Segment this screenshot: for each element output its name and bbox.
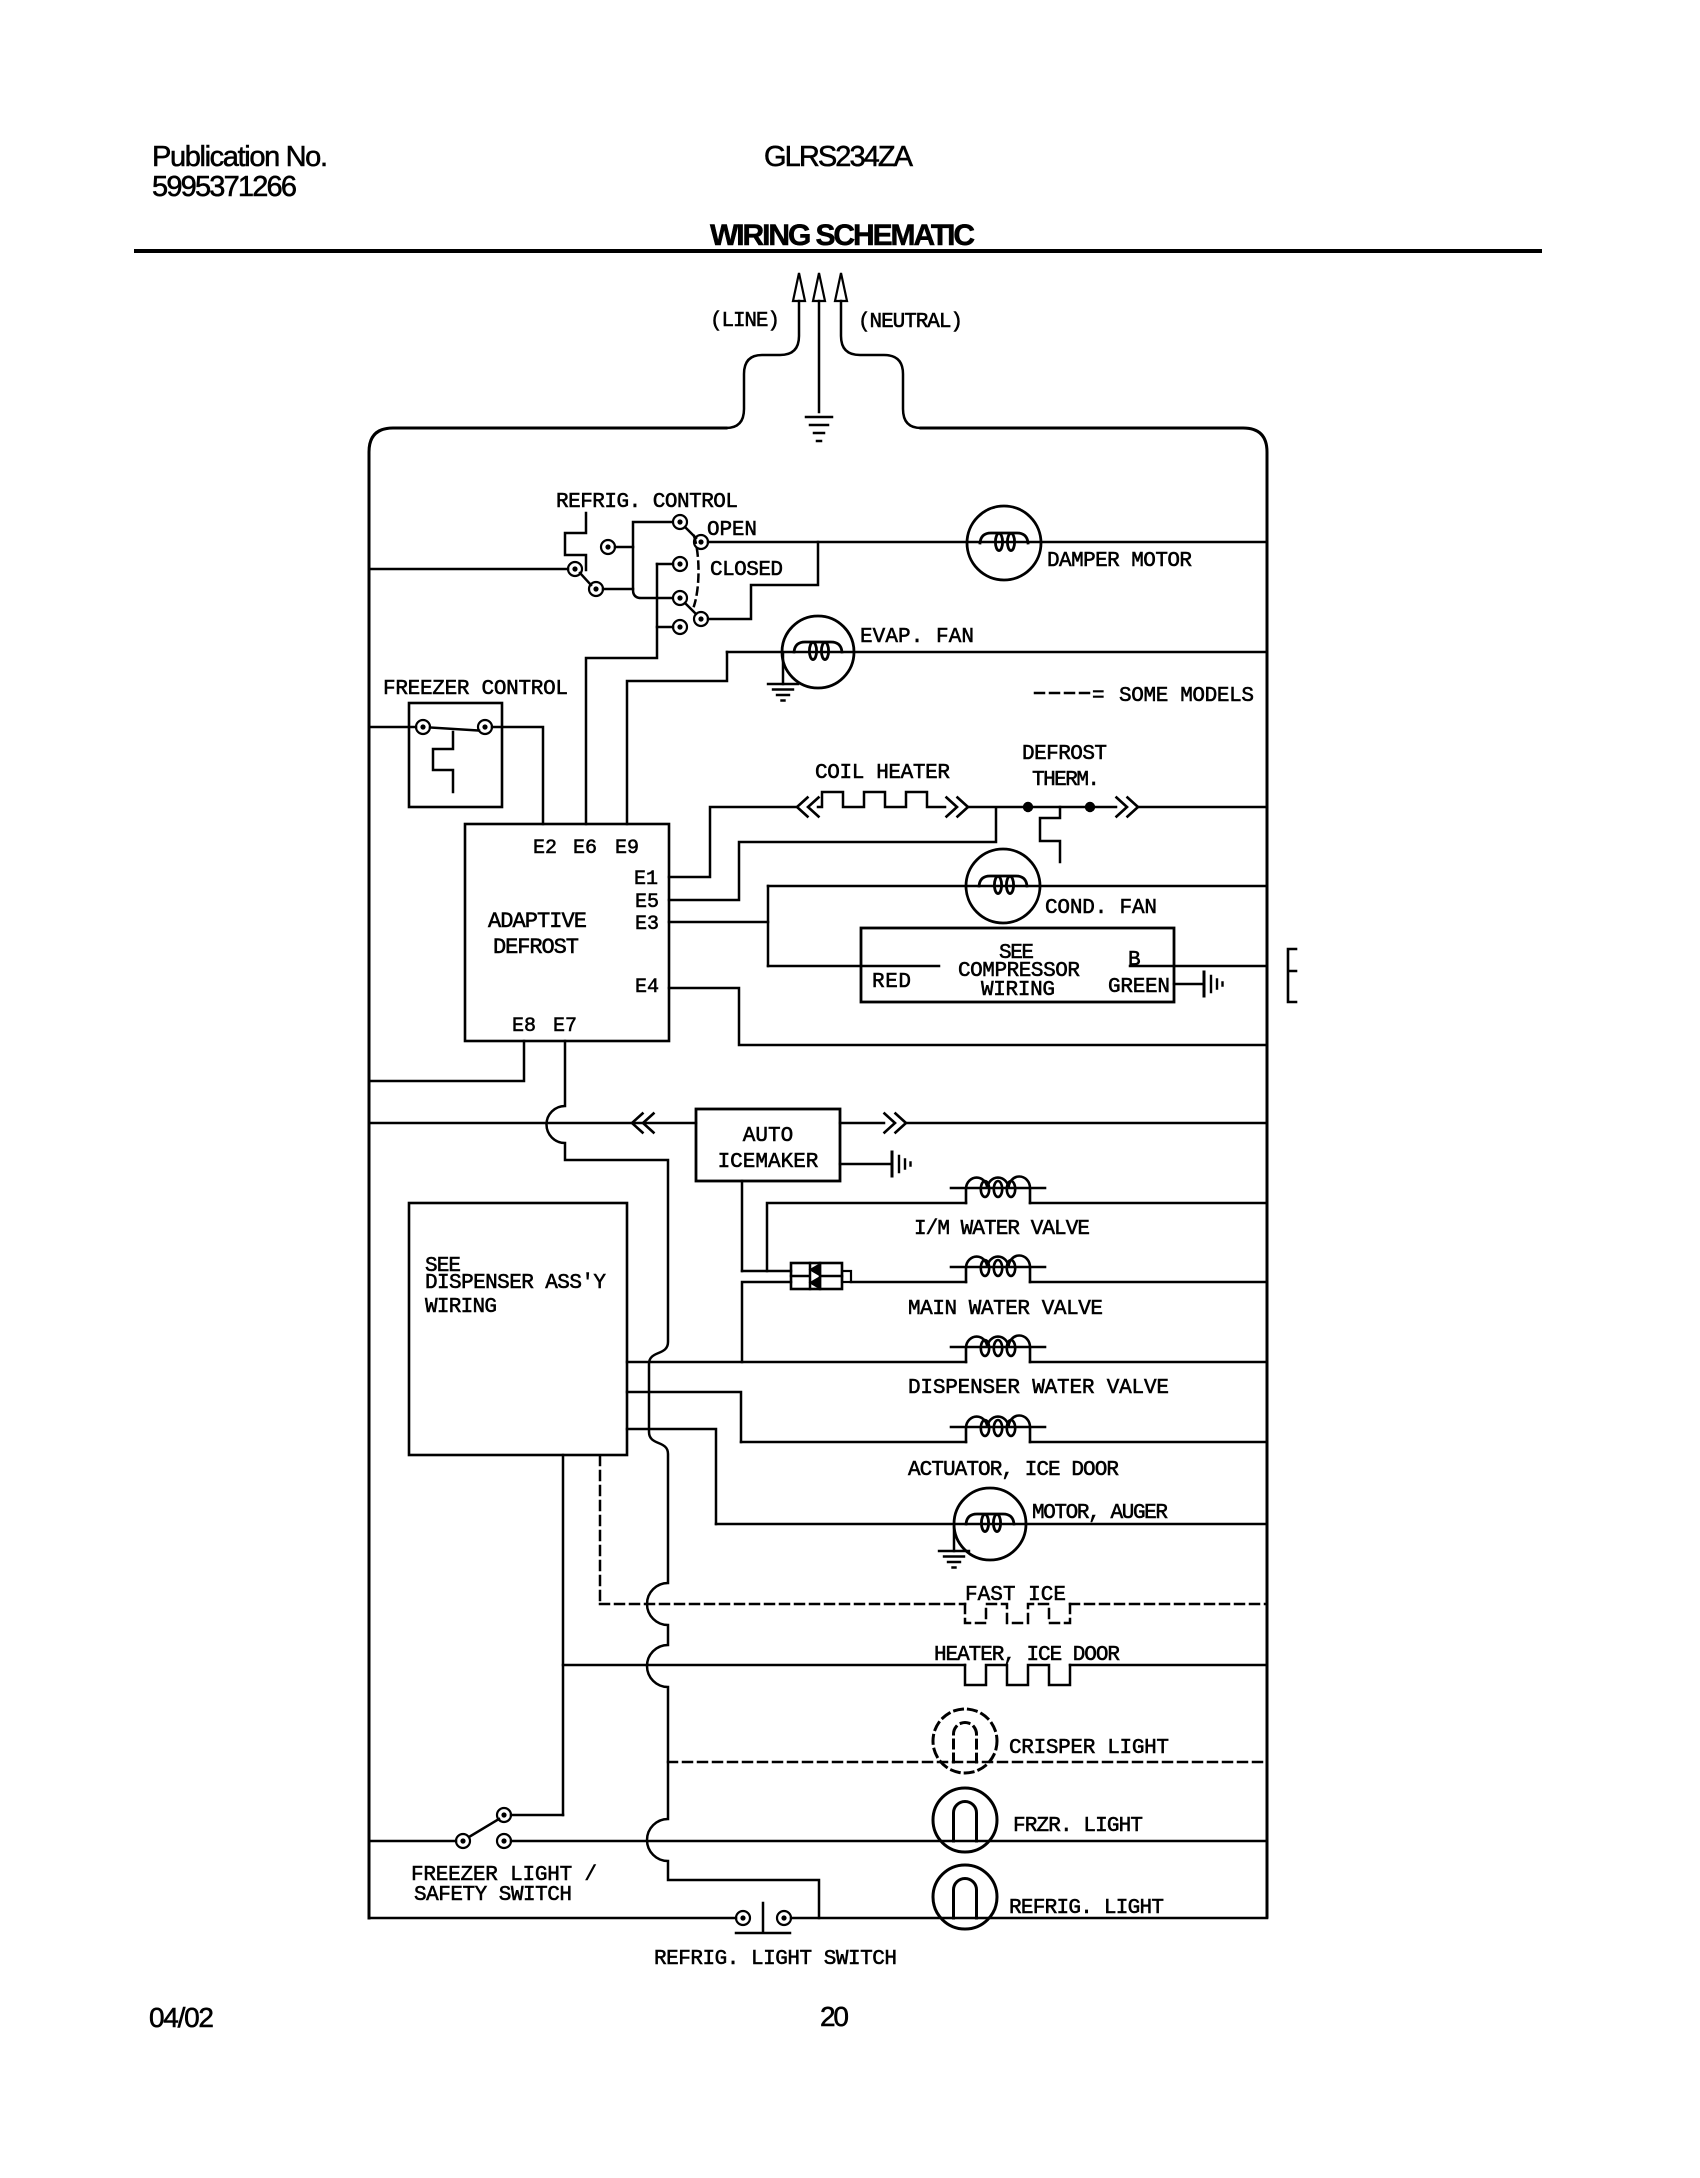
svg-text:I/M WATER VALVE: I/M WATER VALVE (914, 1218, 1090, 1241)
dashed selector arc (694, 536, 699, 606)
wire: fast ice dashed feed (599, 1456, 602, 1604)
wire: coil heater to defrost therm (968, 806, 1267, 809)
svg-text:SOME MODELS: SOME MODELS (1119, 685, 1254, 708)
wire: actuator feed (627, 1392, 741, 1442)
svg-text:=: = (1092, 685, 1105, 708)
svg-text:E1: E1 (634, 868, 658, 891)
wire: RED lead (768, 965, 939, 968)
wire: T9 stub (657, 626, 673, 629)
wire: E1 to coil heater line (669, 807, 796, 877)
wire: T1 branch down to T7 (633, 522, 672, 598)
svg-text:HEATER, ICE DOOR: HEATER, ICE DOOR (934, 1644, 1120, 1667)
compressor wiring box (861, 928, 1174, 1002)
svg-text:GLRS234ZA: GLRS234ZA (764, 141, 914, 173)
svg-text:DISPENSER WATER VALVE: DISPENSER WATER VALVE (908, 1377, 1169, 1400)
wire: heater column (562, 1455, 565, 1815)
svg-text:20: 20 (820, 2001, 849, 2032)
connector bracket (compressor plug) (1288, 949, 1296, 1002)
svg-text:E5: E5 (635, 891, 659, 914)
defrost therm contact dot B (1085, 802, 1095, 812)
refrig light (933, 1865, 997, 1929)
wire: I/M valve line (767, 1203, 1267, 1271)
svg-text:FAST ICE: FAST ICE (965, 1584, 1066, 1607)
freezer safety switch terminal UP (497, 1808, 511, 1822)
svg-text:DEFROST: DEFROST (1022, 743, 1107, 766)
header rule (136, 249, 1540, 253)
svg-text:ICEMAKER: ICEMAKER (718, 1151, 819, 1174)
refrig control terminal T1 (673, 515, 687, 529)
auto icemaker box (696, 1109, 840, 1181)
svg-text:FRZR. LIGHT: FRZR. LIGHT (1013, 1815, 1143, 1838)
svg-text:04/02: 04/02 (149, 2002, 214, 2033)
svg-text:FREEZER CONTROL: FREEZER CONTROL (383, 678, 568, 701)
svg-text:DEFROST: DEFROST (493, 935, 579, 960)
svg-text:RED: RED (872, 971, 911, 994)
svg-text:Publication No.: Publication No. (152, 141, 328, 173)
wire: E5 to defrost line (669, 808, 996, 900)
svg-text:(NEUTRAL): (NEUTRAL) (858, 311, 963, 334)
svg-text:EVAP. FAN: EVAP. FAN (860, 626, 974, 649)
svg-text:E4: E4 (635, 976, 659, 999)
svg-text:WIRING SCHEMATIC: WIRING SCHEMATIC (710, 219, 975, 252)
defrost therm contact dot A (1023, 802, 1033, 812)
wire: bottom rail / refrig light line (369, 1917, 1267, 1920)
wire: E4 line (669, 988, 1267, 1045)
freezer control terminal B (478, 720, 492, 734)
wire: upper feed into valve block (742, 1270, 791, 1273)
dispenser assembly box (409, 1203, 627, 1455)
legend: dashed means SOME MODELS (1035, 685, 1254, 708)
refrig control blade T1-T2 (685, 527, 696, 538)
svg-text:WIRING: WIRING (981, 979, 1055, 1002)
wire: cond fan line (768, 885, 1267, 888)
wire: safety switch to heater column (511, 1814, 563, 1817)
fast ice element (dashed) (965, 1604, 1070, 1623)
refrig control terminal T2 (694, 535, 708, 549)
svg-text:COIL HEATER: COIL HEATER (815, 762, 950, 785)
earth ground (supply) (806, 417, 832, 441)
actuator ice door coil (951, 1416, 1045, 1443)
refrig control terminal T9 (673, 620, 687, 634)
wire: icemaker ground lead (840, 1163, 891, 1166)
wire: auger feed (627, 1429, 716, 1524)
svg-text:SAFETY SWITCH: SAFETY SWITCH (414, 1884, 572, 1907)
water valve solenoid block (791, 1263, 851, 1289)
auger motor (954, 1488, 1026, 1560)
freezer control terminal A (416, 720, 430, 734)
wire: E7 long run to lamp bus (547, 1041, 820, 1918)
svg-text:MOTOR, AUGER: MOTOR, AUGER (1032, 1502, 1168, 1525)
frzr light (933, 1788, 997, 1852)
wire: interconnect bus (369, 1122, 696, 1125)
chassis ground (icemaker) (892, 1152, 911, 1176)
svg-text:GREEN: GREEN (1108, 976, 1170, 999)
svg-text:CLOSED: CLOSED (710, 559, 783, 582)
cond fan motor (966, 849, 1040, 923)
freezer safety switch terminal L (456, 1834, 470, 1848)
evap fan motor (782, 616, 854, 688)
svg-text:REFRIG. LIGHT SWITCH: REFRIG. LIGHT SWITCH (654, 1948, 897, 1971)
connector chevrons (icemaker output) (885, 1114, 907, 1133)
refrig control terminal T7 (673, 591, 687, 605)
wire: T5 stub (657, 563, 673, 566)
wire: damper feed from T2 (708, 541, 1267, 544)
coil heater element (818, 792, 945, 807)
refrig light switch terminal L (736, 1911, 750, 1925)
svg-text:(LINE): (LINE) (710, 310, 780, 333)
damper motor (967, 506, 1041, 580)
svg-text:5995371266: 5995371266 (152, 171, 297, 203)
freezer control thermostat zigzag (433, 732, 453, 792)
main water valve coil (951, 1256, 1045, 1283)
refrig light switch terminal R (777, 1911, 791, 1925)
svg-text:E3: E3 (635, 913, 659, 936)
freezer control blade (430, 728, 479, 731)
refrig control sensor step wire (565, 513, 586, 570)
svg-text:THERM.: THERM. (1032, 769, 1100, 792)
wire: left rail to freezer control (369, 726, 416, 729)
connector chevrons (defrost right) (1117, 798, 1139, 817)
supply arrow EARTH (813, 273, 825, 412)
wire: T8 branch to damper feed (708, 542, 818, 619)
wire: main valve feed riser (742, 1282, 791, 1362)
connector chevrons (coil heater right) (947, 798, 969, 817)
supply arrow LINE (726, 273, 805, 428)
freezer safety switch terminal M (497, 1834, 511, 1848)
refrig control terminal T6 (589, 582, 603, 596)
defrost thermostat body (1040, 807, 1060, 862)
refrig control blade T4-T6 (580, 573, 591, 585)
svg-text:E6: E6 (573, 837, 597, 860)
enclosure border (369, 428, 1267, 1918)
connector chevrons (bus left) (632, 1114, 654, 1133)
wire: B lead (1130, 965, 1267, 968)
wire: E8 to left rail (369, 1041, 524, 1081)
connector chevrons (coil heater left) (797, 798, 819, 817)
I/M water valve coil (951, 1177, 1045, 1204)
wire: T5/T9 riser to E6 column (586, 564, 657, 824)
adaptive defrost control box (465, 824, 669, 1041)
wire: icemaker output (840, 1122, 1267, 1125)
freezer safety switch blade (469, 1819, 499, 1837)
wire: auger line (716, 1523, 1267, 1526)
refrig control terminal T3 (601, 540, 615, 554)
svg-text:COND. FAN: COND. FAN (1045, 897, 1157, 920)
wire: dispenser water valve line (627, 1361, 1267, 1364)
wire: T3 stub (615, 546, 633, 549)
svg-text:ADAPTIVE: ADAPTIVE (488, 909, 587, 934)
svg-text:E9: E9 (615, 837, 639, 860)
supply arrow NEUTRAL (835, 273, 921, 428)
wire: heater ice door line (563, 1664, 1267, 1667)
svg-text:B: B (1128, 949, 1141, 972)
wire: evap drop to E9 column (627, 652, 727, 824)
svg-text:E7: E7 (553, 1015, 577, 1038)
ground: evap fan (768, 654, 798, 701)
refrig light switch plunger (736, 1903, 790, 1933)
wire: left rail to refrig control (369, 568, 568, 571)
svg-text:DISPENSER ASS'Y: DISPENSER ASS'Y (425, 1272, 606, 1295)
heater ice door element (965, 1665, 1070, 1685)
dispenser water valve coil (951, 1336, 1045, 1363)
svg-text:REFRIG. LIGHT: REFRIG. LIGHT (1009, 1897, 1164, 1920)
wire: freezer control to E2 column (492, 727, 543, 824)
ground: auger motor (939, 1527, 969, 1568)
wire: fast ice dashed line (600, 1603, 1267, 1606)
wire: E3 to riser (669, 921, 768, 924)
refrig control terminal T5 (673, 557, 687, 571)
wire: evap fan line (727, 651, 1267, 654)
chassis ground (compressor green) (1204, 972, 1223, 996)
wire: icemaker down feed (741, 1181, 744, 1271)
crisper light (dashed) (933, 1709, 997, 1773)
svg-text:WIRING: WIRING (425, 1296, 497, 1319)
wire: GREEN lead (1174, 983, 1204, 986)
refrig control blade T7-T8 (685, 603, 696, 614)
svg-text:E2: E2 (533, 837, 557, 860)
wire: freezer light line (369, 1840, 1267, 1843)
refrig control terminal T8 (694, 612, 708, 626)
svg-text:AUTO: AUTO (743, 1125, 793, 1148)
svg-text:DAMPER MOTOR: DAMPER MOTOR (1047, 550, 1192, 573)
wire: actuator line (741, 1441, 1267, 1444)
svg-text:E8: E8 (512, 1015, 536, 1038)
freezer control box (409, 703, 502, 807)
svg-text:OPEN: OPEN (707, 519, 757, 542)
wire: crisper light dashed line (668, 1761, 1267, 1764)
wire: T6 to junction (603, 588, 633, 591)
svg-text:CRISPER LIGHT: CRISPER LIGHT (1009, 1737, 1169, 1760)
svg-text:MAIN WATER VALVE: MAIN WATER VALVE (908, 1298, 1103, 1321)
svg-text:REFRIG. CONTROL: REFRIG. CONTROL (556, 491, 738, 514)
refrig control terminal T4 (568, 562, 582, 576)
wire: cond fan riser (767, 886, 770, 966)
svg-text:ACTUATOR, ICE DOOR: ACTUATOR, ICE DOOR (908, 1459, 1119, 1482)
wire: main water valve line (851, 1281, 1267, 1284)
